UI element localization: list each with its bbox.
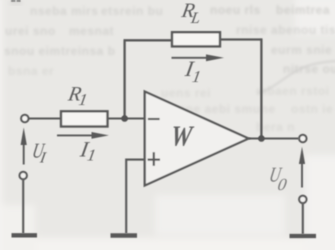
label I1 under R1 [78, 137, 92, 162]
svg-text:etsrein bu: etsrein bu [101, 4, 163, 18]
label UI [31, 139, 47, 163]
resistor RL [172, 32, 220, 46]
op-amp U1 triangle [145, 92, 249, 186]
wire non-inverting down to ground [125, 159, 127, 234]
wire input terminal to R1 [28, 117, 61, 119]
ground middle [111, 233, 138, 238]
wire output lower terminal to ground [302, 203, 304, 234]
wire feedback vertical left [123, 40, 125, 119]
op-amp minus input sign [148, 118, 160, 120]
svg-text:snou eim: snou eim [4, 44, 61, 58]
svg-text:mbaen rstoi: mbaen rstoi [256, 84, 330, 98]
resistor R1 [61, 111, 108, 126]
faint scratch curve (scan artifact) [258, 61, 335, 93]
voltage arrow UI [21, 127, 27, 164]
bleed-through text rows [4, 3, 335, 134]
svg-text:nseba mirs: nseba mirs [30, 4, 98, 18]
ground right [290, 234, 317, 238]
svg-text:uens rei: uens rei [161, 86, 211, 100]
svg-text:eurm snie: eurm snie [271, 43, 332, 57]
label R1 [66, 83, 84, 105]
wire feedback vertical right down to output node [260, 38, 262, 138]
label W inside op-amp [169, 120, 195, 152]
output terminal circle top [299, 135, 306, 142]
wire feedback top left to RL [124, 39, 173, 41]
svg-text:noeu rls: noeu rls [210, 3, 261, 17]
wire R1 to op-amp inverting input [107, 117, 145, 119]
input terminal circle top [21, 115, 28, 122]
wire input lower terminal to ground [22, 180, 24, 234]
svg-text:beimtrea: beimtrea [276, 3, 330, 17]
output terminal circle bottom [299, 196, 306, 203]
svg-text:bsna er: bsna er [8, 64, 54, 78]
node junction dot at inverting input [121, 115, 128, 122]
current arrow I1 under RL [172, 54, 225, 61]
current arrow I1 under R1 [57, 132, 109, 139]
wire non-inverting input horizontal [126, 159, 145, 161]
svg-text:urei sno: urei sno [5, 24, 56, 38]
svg-text:mesnat: mesnat [69, 24, 114, 38]
svg-text:ostn ie: ostn ie [291, 102, 333, 116]
label I1 under RL [183, 56, 197, 81]
ground left [12, 233, 38, 237]
svg-text:treinsa b: treinsa b [61, 44, 116, 58]
op-amp plus input sign [148, 152, 160, 166]
voltage arrow UO [299, 147, 305, 188]
svg-text:rnise abenou tis: rnise abenou tis [236, 23, 335, 37]
node junction dot at output [258, 135, 265, 142]
top-left cropped glyph [10, 0, 22, 5]
wire RL to right corner [220, 38, 261, 40]
input terminal circle bottom [20, 172, 27, 179]
label UO [268, 162, 284, 186]
label RL [179, 0, 197, 22]
wire op-amp output to terminal [249, 137, 299, 139]
